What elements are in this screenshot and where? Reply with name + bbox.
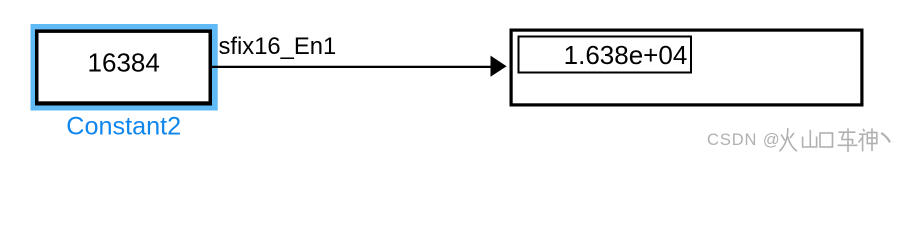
watermark shadow layer bbox=[708, 129, 891, 153]
arrowhead at Display input bbox=[491, 56, 507, 77]
svg-text:1.638e+04: 1.638e+04 bbox=[564, 40, 688, 70]
selection highlight (blue) around Constant2 bbox=[31, 24, 218, 111]
display block body bbox=[510, 29, 864, 107]
svg-text:Constant2: Constant2 bbox=[66, 113, 181, 141]
watermark front layer bbox=[707, 128, 890, 152]
wire from Constant2 to Display bbox=[211, 66, 492, 68]
display inner value box bbox=[518, 36, 693, 74]
constant block Constant2 body bbox=[35, 29, 212, 105]
svg-text:16384: 16384 bbox=[88, 47, 160, 77]
svg-text:sfix16_En1: sfix16_En1 bbox=[219, 33, 337, 60]
